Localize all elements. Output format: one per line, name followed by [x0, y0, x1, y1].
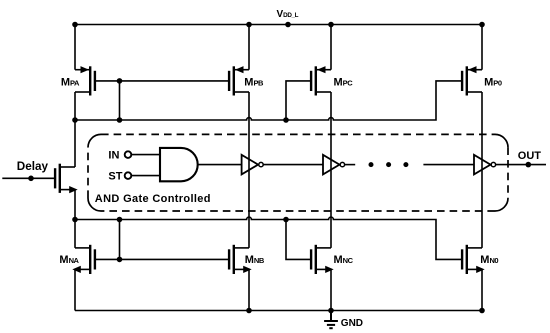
svg-text:MNC: MNC: [334, 254, 354, 266]
svg-text:Delay: Delay: [17, 160, 49, 173]
svg-text:MNB: MNB: [245, 254, 265, 266]
svg-text:MP0: MP0: [484, 77, 502, 89]
svg-text:IN: IN: [108, 150, 119, 162]
svg-text:MPB: MPB: [244, 77, 264, 89]
svg-text:MPA: MPA: [61, 77, 80, 89]
svg-text:MPC: MPC: [334, 77, 354, 89]
svg-text:ST: ST: [108, 171, 122, 183]
svg-text:OUT: OUT: [518, 150, 542, 162]
svg-text:MNA: MNA: [59, 254, 79, 266]
svg-text:GND: GND: [341, 318, 363, 329]
svg-text:AND Gate Controlled: AND Gate Controlled: [95, 193, 211, 205]
svg-text:MN0: MN0: [480, 254, 498, 266]
